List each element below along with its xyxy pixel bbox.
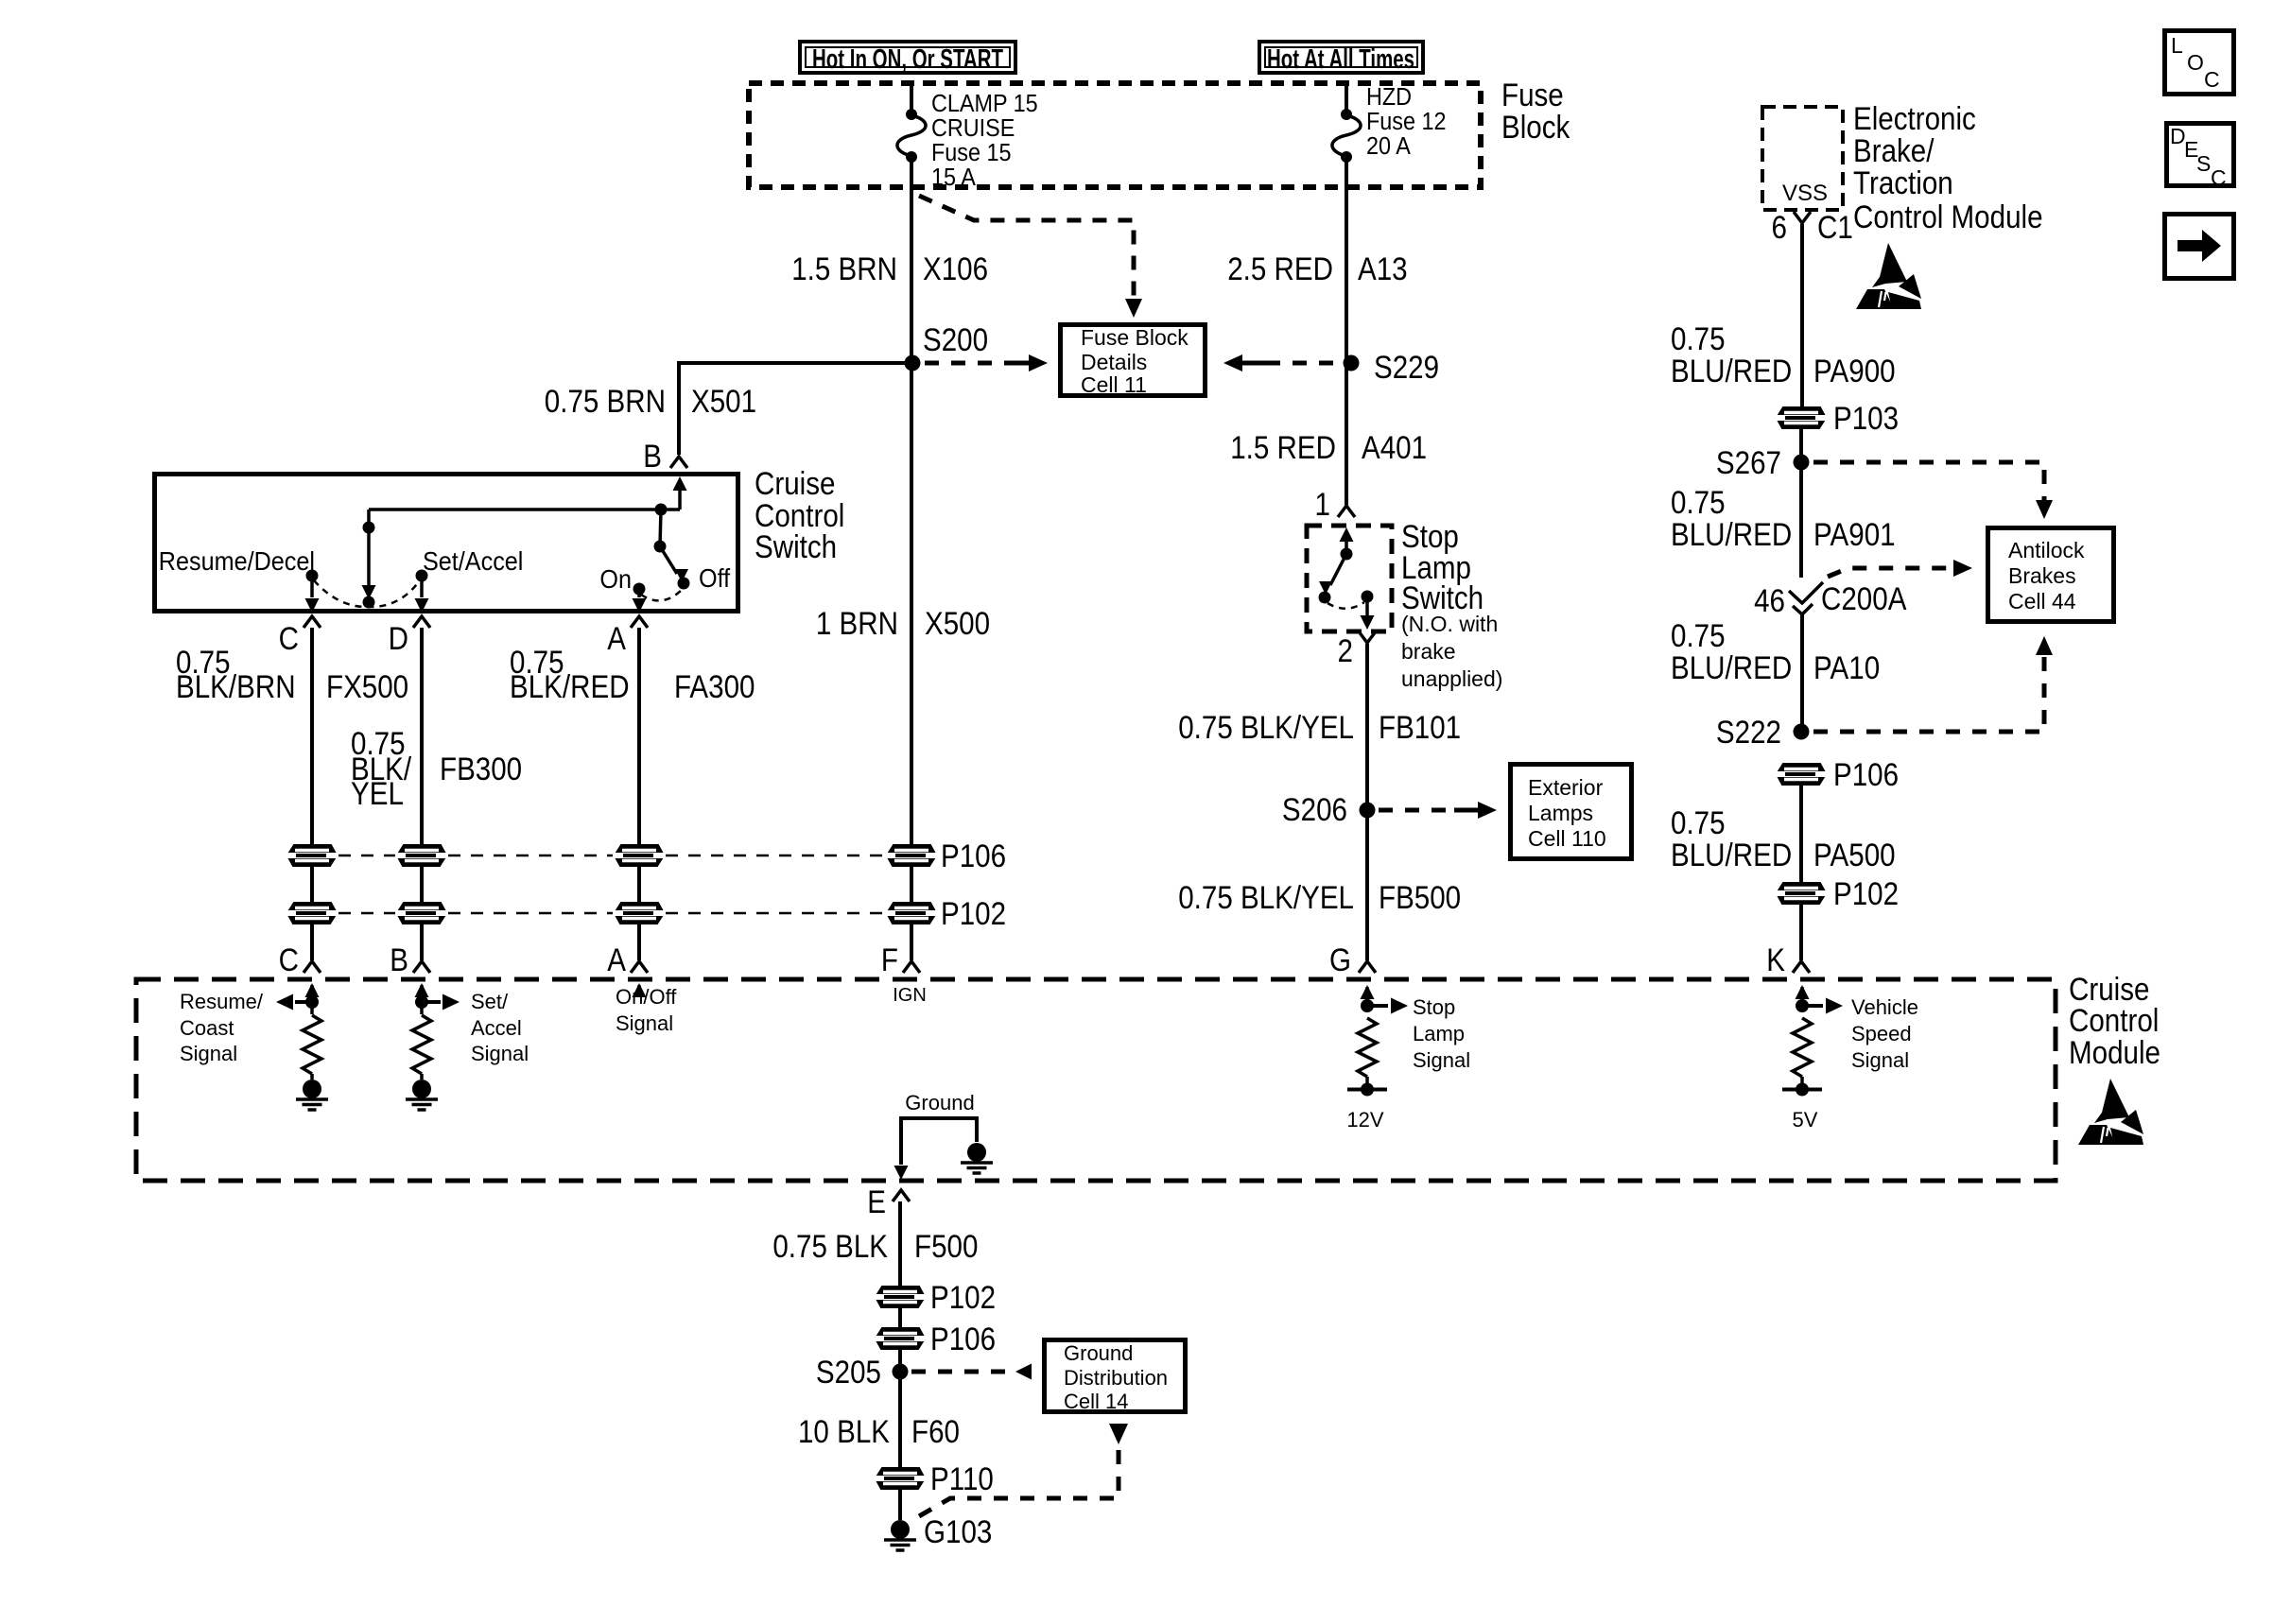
svg-text:P103: P103	[1833, 400, 1899, 436]
svg-text:unapplied): unapplied)	[1401, 666, 1502, 691]
svg-text:Brakes: Brakes	[2008, 563, 2076, 588]
svg-text:Block: Block	[1501, 109, 1570, 145]
svg-text:CLAMP 15: CLAMP 15	[931, 91, 1038, 117]
wire module A	[637, 985, 641, 996]
svg-text:C: C	[2211, 165, 2227, 190]
svg-text:Resume/: Resume/	[180, 990, 264, 1013]
fuse F12 HZD	[1341, 109, 1352, 120]
svg-text:S: S	[2196, 151, 2211, 176]
wire	[310, 628, 314, 845]
pin B	[670, 457, 687, 468]
svg-text:0.75: 0.75	[1671, 804, 1726, 840]
wire PA10	[1800, 614, 1804, 732]
svg-text:X106: X106	[923, 251, 988, 286]
svg-text:Control Module: Control Module	[1853, 199, 2043, 234]
connector C200A	[1789, 582, 1823, 603]
wire	[898, 1349, 902, 1372]
svg-text:B: B	[643, 438, 662, 474]
svg-text:X500: X500	[925, 605, 990, 641]
node Hot In ON Or START	[800, 42, 1015, 73]
svg-text:Hot At All Times: Hot At All Times	[1267, 44, 1414, 75]
connector P103	[1775, 407, 1828, 428]
svg-text:A401: A401	[1362, 429, 1427, 465]
svg-text:Off: Off	[699, 563, 731, 594]
node junction	[415, 995, 428, 1009]
svg-text:BLK/BRN: BLK/BRN	[176, 668, 296, 704]
svg-text:Signal: Signal	[471, 1042, 529, 1065]
svg-text:Fuse 15: Fuse 15	[931, 140, 1012, 166]
connector P106	[395, 845, 448, 866]
wire	[637, 628, 641, 845]
node S229	[1344, 355, 1360, 371]
svg-text:Cell 14: Cell 14	[1064, 1390, 1128, 1413]
svg-text:Fuse: Fuse	[1501, 77, 1564, 112]
pin A module	[631, 961, 648, 973]
svg-text:Distribution: Distribution	[1064, 1366, 1168, 1390]
svg-text:Ground: Ground	[905, 1091, 974, 1114]
svg-text:On: On	[599, 564, 632, 595]
svg-text:1: 1	[1315, 486, 1330, 522]
svg-text:Vehicle: Vehicle	[1851, 995, 1918, 1019]
svg-text:Switch: Switch	[755, 528, 837, 564]
svg-text:Set/Accel: Set/Accel	[423, 546, 523, 577]
svg-text:B: B	[390, 942, 408, 977]
svg-text:A: A	[607, 620, 626, 656]
svg-text:FB101: FB101	[1379, 709, 1461, 745]
wire	[910, 924, 913, 960]
svg-text:0.75: 0.75	[1671, 617, 1726, 653]
svg-text:Exterior: Exterior	[1528, 775, 1604, 800]
wire dashed contact arc	[314, 580, 420, 607]
node S200	[905, 355, 921, 371]
pin B module	[413, 961, 430, 973]
resistor R3	[1358, 1018, 1377, 1077]
wire switch internal B	[678, 480, 682, 510]
svg-text:S229: S229	[1374, 349, 1439, 385]
node Set/Accel contact	[416, 570, 428, 582]
connector P102	[395, 903, 448, 924]
svg-text:BLU/RED: BLU/RED	[1671, 649, 1792, 685]
wire dashed ref to fuse block details	[919, 196, 1134, 302]
svg-text:Resume/Decel: Resume/Decel	[159, 546, 315, 577]
module Cruise Control Module	[136, 979, 2056, 1181]
svg-text:BLU/RED: BLU/RED	[1671, 837, 1792, 872]
wire PA500	[1799, 785, 1803, 883]
node Ground Distribution Cell 14	[1045, 1340, 1186, 1412]
ESD symbol	[1856, 243, 1921, 309]
svg-text:Details: Details	[1081, 350, 1147, 374]
node Fuse Block Details Cell 11	[1061, 325, 1206, 396]
svg-text:Hot In ON, Or START: Hot In ON, Or START	[812, 44, 1003, 75]
connector P102	[874, 1287, 927, 1307]
svg-text:Brake/: Brake/	[1853, 132, 1935, 168]
svg-text:brake: brake	[1401, 639, 1456, 664]
node LOC key	[2165, 31, 2234, 95]
wire	[420, 924, 424, 960]
svg-text:12V: 12V	[1346, 1108, 1383, 1132]
node junction	[305, 995, 319, 1009]
wire	[898, 1307, 902, 1328]
pin E	[893, 1190, 910, 1201]
ground	[310, 1074, 314, 1080]
svg-text:D: D	[389, 620, 408, 656]
svg-text:L: L	[2171, 33, 2183, 58]
pin 2	[1359, 631, 1376, 643]
connector P110	[874, 1468, 927, 1489]
svg-text:F60: F60	[911, 1413, 960, 1449]
node S222	[1794, 724, 1810, 740]
pin A	[631, 616, 648, 628]
wire module K	[1800, 987, 1804, 1006]
wire module C	[310, 985, 314, 1002]
pin D	[413, 616, 430, 628]
svg-text:CRUISE: CRUISE	[931, 115, 1015, 142]
svg-text:P106: P106	[930, 1321, 996, 1356]
svg-text:On/Off: On/Off	[616, 985, 677, 1009]
svg-text:G: G	[1329, 942, 1351, 977]
pin C	[304, 616, 321, 628]
wire switch arm to Off	[660, 546, 677, 574]
ground G103	[891, 1520, 910, 1539]
svg-text:FB300: FB300	[440, 751, 522, 786]
svg-text:HZD: HZD	[1366, 84, 1412, 111]
svg-text:Speed: Speed	[1851, 1022, 1912, 1045]
node arrow key	[2165, 215, 2234, 279]
wire F60	[898, 1372, 902, 1468]
svg-text:1 BRN: 1 BRN	[816, 605, 898, 641]
wire dashed ground distribution to G103	[1109, 1424, 1128, 1444]
pin K	[1793, 961, 1810, 973]
svg-text:Cell 110: Cell 110	[1528, 826, 1606, 851]
svg-text:P102: P102	[930, 1279, 996, 1315]
svg-text:P106: P106	[941, 838, 1006, 873]
wire	[637, 924, 641, 960]
node Antilock Brakes Cell 44	[1988, 528, 2114, 622]
svg-text:Traction: Traction	[1853, 164, 1953, 200]
node Hot At All Times	[1259, 42, 1423, 73]
pin 6 C1	[1794, 212, 1811, 223]
node junction	[1796, 999, 1809, 1012]
ground	[967, 1143, 986, 1162]
svg-text:6: 6	[1772, 209, 1787, 245]
wire FB500	[1365, 810, 1369, 960]
wire arrow Stop Lamp Signal	[1367, 1004, 1388, 1008]
svg-text:P106: P106	[1833, 756, 1899, 792]
svg-text:Cell 11: Cell 11	[1081, 372, 1147, 397]
svg-text:C: C	[279, 620, 299, 656]
pin 1	[1338, 506, 1355, 517]
svg-text:A13: A13	[1358, 251, 1408, 286]
wire dashed connector row P102	[338, 912, 395, 915]
svg-text:Coast: Coast	[180, 1016, 234, 1040]
svg-text:Cell 44: Cell 44	[2008, 589, 2076, 613]
svg-text:Cruise: Cruise	[755, 465, 835, 501]
connector P102	[1775, 883, 1828, 904]
svg-text:P110: P110	[930, 1460, 994, 1496]
svg-text:FB500: FB500	[1379, 879, 1461, 915]
node S205	[893, 1364, 909, 1380]
connector P102	[885, 903, 938, 924]
fuse F15 CRUISE	[906, 109, 917, 120]
svg-text:A: A	[607, 942, 626, 977]
node On contact	[633, 583, 646, 596]
module Electronic Brake Traction Control Module VSS	[1762, 107, 1843, 210]
wire module G	[1365, 987, 1369, 1006]
wire ground bracket	[901, 1118, 977, 1165]
wire A401	[1345, 363, 1348, 505]
node 12V rail	[1365, 1077, 1369, 1089]
pin F module	[903, 961, 920, 973]
wire F500	[898, 1201, 902, 1287]
svg-text:0.75: 0.75	[1671, 484, 1726, 520]
connector P102	[286, 903, 338, 924]
svg-text:2.5 RED: 2.5 RED	[1227, 251, 1333, 286]
svg-text:E: E	[867, 1183, 886, 1219]
wire dashed S222 to antilock	[1813, 654, 2044, 732]
svg-text:20 A: 20 A	[1366, 133, 1411, 160]
node S267	[1794, 455, 1810, 471]
svg-text:PA10: PA10	[1813, 649, 1880, 685]
svg-text:0.75 BLK/YEL: 0.75 BLK/YEL	[1178, 879, 1354, 915]
wire dashed S205 to ground distribution	[911, 1370, 1012, 1374]
svg-text:C: C	[279, 942, 299, 977]
switch S1 Cruise Control Switch	[155, 475, 738, 612]
svg-text:F500: F500	[914, 1228, 978, 1264]
svg-text:15 A: 15 A	[931, 164, 976, 191]
pin G	[1359, 961, 1376, 973]
svg-text:0.75 BLK/YEL: 0.75 BLK/YEL	[1178, 709, 1354, 745]
wire arrow Vehicle Speed Signal	[1802, 1004, 1823, 1008]
connector P106	[1775, 764, 1828, 785]
svg-text:FX500: FX500	[326, 668, 408, 704]
node 5V rail	[1800, 1077, 1804, 1089]
svg-text:5V: 5V	[1793, 1108, 1818, 1132]
svg-text:Lamp: Lamp	[1413, 1022, 1465, 1045]
svg-text:Lamps: Lamps	[1528, 801, 1593, 825]
wire	[310, 866, 314, 903]
wire	[1799, 904, 1803, 960]
svg-text:Accel: Accel	[471, 1016, 522, 1040]
wire dashed S206 to exterior lamps	[1379, 808, 1454, 813]
node S206	[1360, 803, 1376, 819]
wire	[310, 924, 314, 960]
svg-text:0.75 BLK: 0.75 BLK	[772, 1228, 888, 1264]
wire dashed C200A to antilock	[1828, 568, 1948, 577]
wire	[1799, 428, 1803, 462]
svg-text:P102: P102	[1833, 875, 1899, 911]
svg-text:PA900: PA900	[1813, 353, 1896, 389]
svg-text:Antilock: Antilock	[2008, 538, 2085, 562]
svg-text:S205: S205	[816, 1354, 881, 1390]
wire	[910, 83, 913, 114]
svg-text:F: F	[881, 942, 898, 977]
svg-text:46: 46	[1754, 582, 1785, 618]
wire dashed connector row P106	[338, 855, 395, 857]
svg-text:PA901: PA901	[1813, 516, 1896, 552]
svg-text:Stop: Stop	[1413, 995, 1455, 1019]
node Exterior Lamps Cell 110	[1511, 765, 1632, 859]
svg-text:BLU/RED: BLU/RED	[1671, 516, 1792, 552]
svg-text:YEL: YEL	[351, 775, 404, 811]
node switch pivot	[655, 504, 668, 516]
connector P106	[286, 845, 338, 866]
svg-text:K: K	[1766, 942, 1785, 977]
svg-text:Electronic: Electronic	[1853, 100, 1976, 136]
wire	[910, 866, 913, 903]
resistor R1	[310, 1002, 314, 1014]
wire dashed S267 to antilock	[1813, 462, 2044, 501]
svg-text:BLK/RED: BLK/RED	[510, 668, 630, 704]
svg-text:1.5 RED: 1.5 RED	[1230, 429, 1336, 465]
connector P102	[613, 903, 666, 924]
svg-text:Ground: Ground	[1064, 1341, 1133, 1365]
wire dashed S229 to cell 11	[1223, 354, 1242, 371]
svg-text:VSS: VSS	[1782, 181, 1828, 206]
wire PA901	[1799, 462, 1803, 578]
wire X501	[679, 363, 912, 455]
connector P106	[885, 845, 938, 866]
svg-text:FA300: FA300	[674, 668, 755, 704]
wire	[420, 866, 424, 903]
svg-text:Signal: Signal	[1851, 1048, 1909, 1072]
svg-text:Set/: Set/	[471, 990, 509, 1013]
resistor R4	[1793, 1018, 1812, 1077]
wire	[637, 866, 641, 903]
svg-text:PA500: PA500	[1813, 837, 1896, 872]
wire	[898, 1489, 902, 1520]
ESD symbol	[2078, 1079, 2143, 1145]
svg-text:C: C	[2204, 67, 2220, 92]
svg-text:Signal: Signal	[1413, 1048, 1470, 1072]
wire	[1345, 83, 1348, 114]
wire arrow Set/Accel	[422, 1000, 441, 1004]
svg-text:P102: P102	[941, 895, 1006, 931]
svg-text:S206: S206	[1282, 791, 1347, 827]
node Resume/Decel contact	[306, 570, 319, 582]
svg-text:S267: S267	[1716, 444, 1781, 480]
svg-text:Switch: Switch	[1401, 579, 1484, 615]
svg-text:S222: S222	[1716, 714, 1781, 750]
svg-text:2: 2	[1338, 632, 1353, 668]
svg-text:BLU/RED: BLU/RED	[1671, 353, 1792, 389]
node center contact	[363, 596, 375, 609]
svg-text:1.5 BRN: 1.5 BRN	[791, 251, 897, 286]
svg-text:C1: C1	[1817, 209, 1853, 245]
switch S2 Stop Lamp Switch	[1307, 526, 1392, 631]
resistor R2	[420, 1002, 424, 1014]
svg-text:Signal: Signal	[616, 1011, 673, 1035]
wire A13	[1345, 157, 1348, 363]
svg-text:0.75 BRN: 0.75 BRN	[545, 383, 666, 419]
wire arrow Resume/Coast	[295, 1000, 312, 1004]
connector P106	[874, 1328, 927, 1349]
wire FB101	[1365, 644, 1369, 810]
svg-text:(N.O. with: (N.O. with	[1401, 612, 1498, 636]
svg-text:X501: X501	[691, 383, 756, 419]
node Off contact	[678, 578, 690, 590]
svg-text:S200: S200	[923, 321, 988, 357]
wire X500	[910, 363, 913, 845]
wire PA900	[1800, 224, 1804, 408]
wire dashed S200 to cell 11	[925, 361, 1006, 366]
svg-text:G103: G103	[924, 1513, 992, 1549]
wire	[420, 628, 424, 845]
svg-text:10 BLK: 10 BLK	[798, 1413, 890, 1449]
svg-text:Fuse Block: Fuse Block	[1081, 325, 1189, 350]
svg-text:Signal: Signal	[180, 1042, 237, 1065]
svg-text:Module: Module	[2069, 1034, 2160, 1070]
svg-text:Control: Control	[2069, 1002, 2159, 1038]
wire X106	[910, 157, 913, 363]
connector P106	[613, 845, 666, 866]
pin C module	[304, 961, 321, 973]
fuse block	[749, 83, 1481, 187]
svg-text:IGN: IGN	[893, 985, 927, 1006]
ground	[420, 1074, 424, 1080]
node junction	[1361, 999, 1374, 1012]
svg-text:Fuse 12: Fuse 12	[1366, 109, 1447, 135]
node DESC key	[2167, 124, 2234, 186]
svg-text:O: O	[2187, 50, 2204, 75]
svg-text:0.75: 0.75	[1671, 320, 1726, 356]
wire switch center	[367, 510, 371, 586]
svg-text:C200A: C200A	[1821, 580, 1907, 616]
wire module B	[420, 985, 424, 1002]
